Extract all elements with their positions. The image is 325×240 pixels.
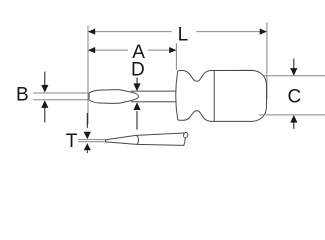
dimension B arrow lower — [41, 100, 48, 122]
svg-text:L: L — [178, 24, 189, 45]
extension line C top — [264, 75, 325, 77]
extension line right (handle end) — [266, 23, 268, 100]
dimension A line — [88, 47, 176, 53]
dimension L line — [88, 29, 267, 35]
svg-text:D: D — [131, 60, 145, 81]
svg-text:T: T — [66, 131, 78, 152]
handle outline — [176, 70, 267, 121]
blade (front view) — [89, 90, 139, 104]
shank end break curl (side view) — [183, 132, 188, 138]
dimension B arrow upper — [41, 72, 48, 93]
svg-text:C: C — [288, 87, 302, 108]
dimension T arrow upper — [84, 113, 91, 139]
extension line C bottom — [259, 114, 325, 116]
dimension D arrow upper — [133, 78, 140, 92]
svg-text:B: B — [16, 84, 29, 105]
dimension C arrow upper — [290, 59, 297, 76]
blade-shank transition arc (side view) — [136, 135, 138, 144]
extension line left (tip) — [87, 26, 89, 124]
dimension C arrow lower — [290, 115, 297, 129]
blade side view — [106, 133, 186, 145]
dimension T arrow lower — [84, 143, 91, 153]
extension line at handle front — [175, 43, 177, 70]
extension lines T (blade thickness) — [78, 140, 105, 142]
extension lines B (tip edges) — [33, 93, 89, 100]
dimension D arrow lower — [133, 102, 140, 129]
shank (front view) — [131, 91, 176, 102]
handle body front edge — [213, 71, 215, 122]
